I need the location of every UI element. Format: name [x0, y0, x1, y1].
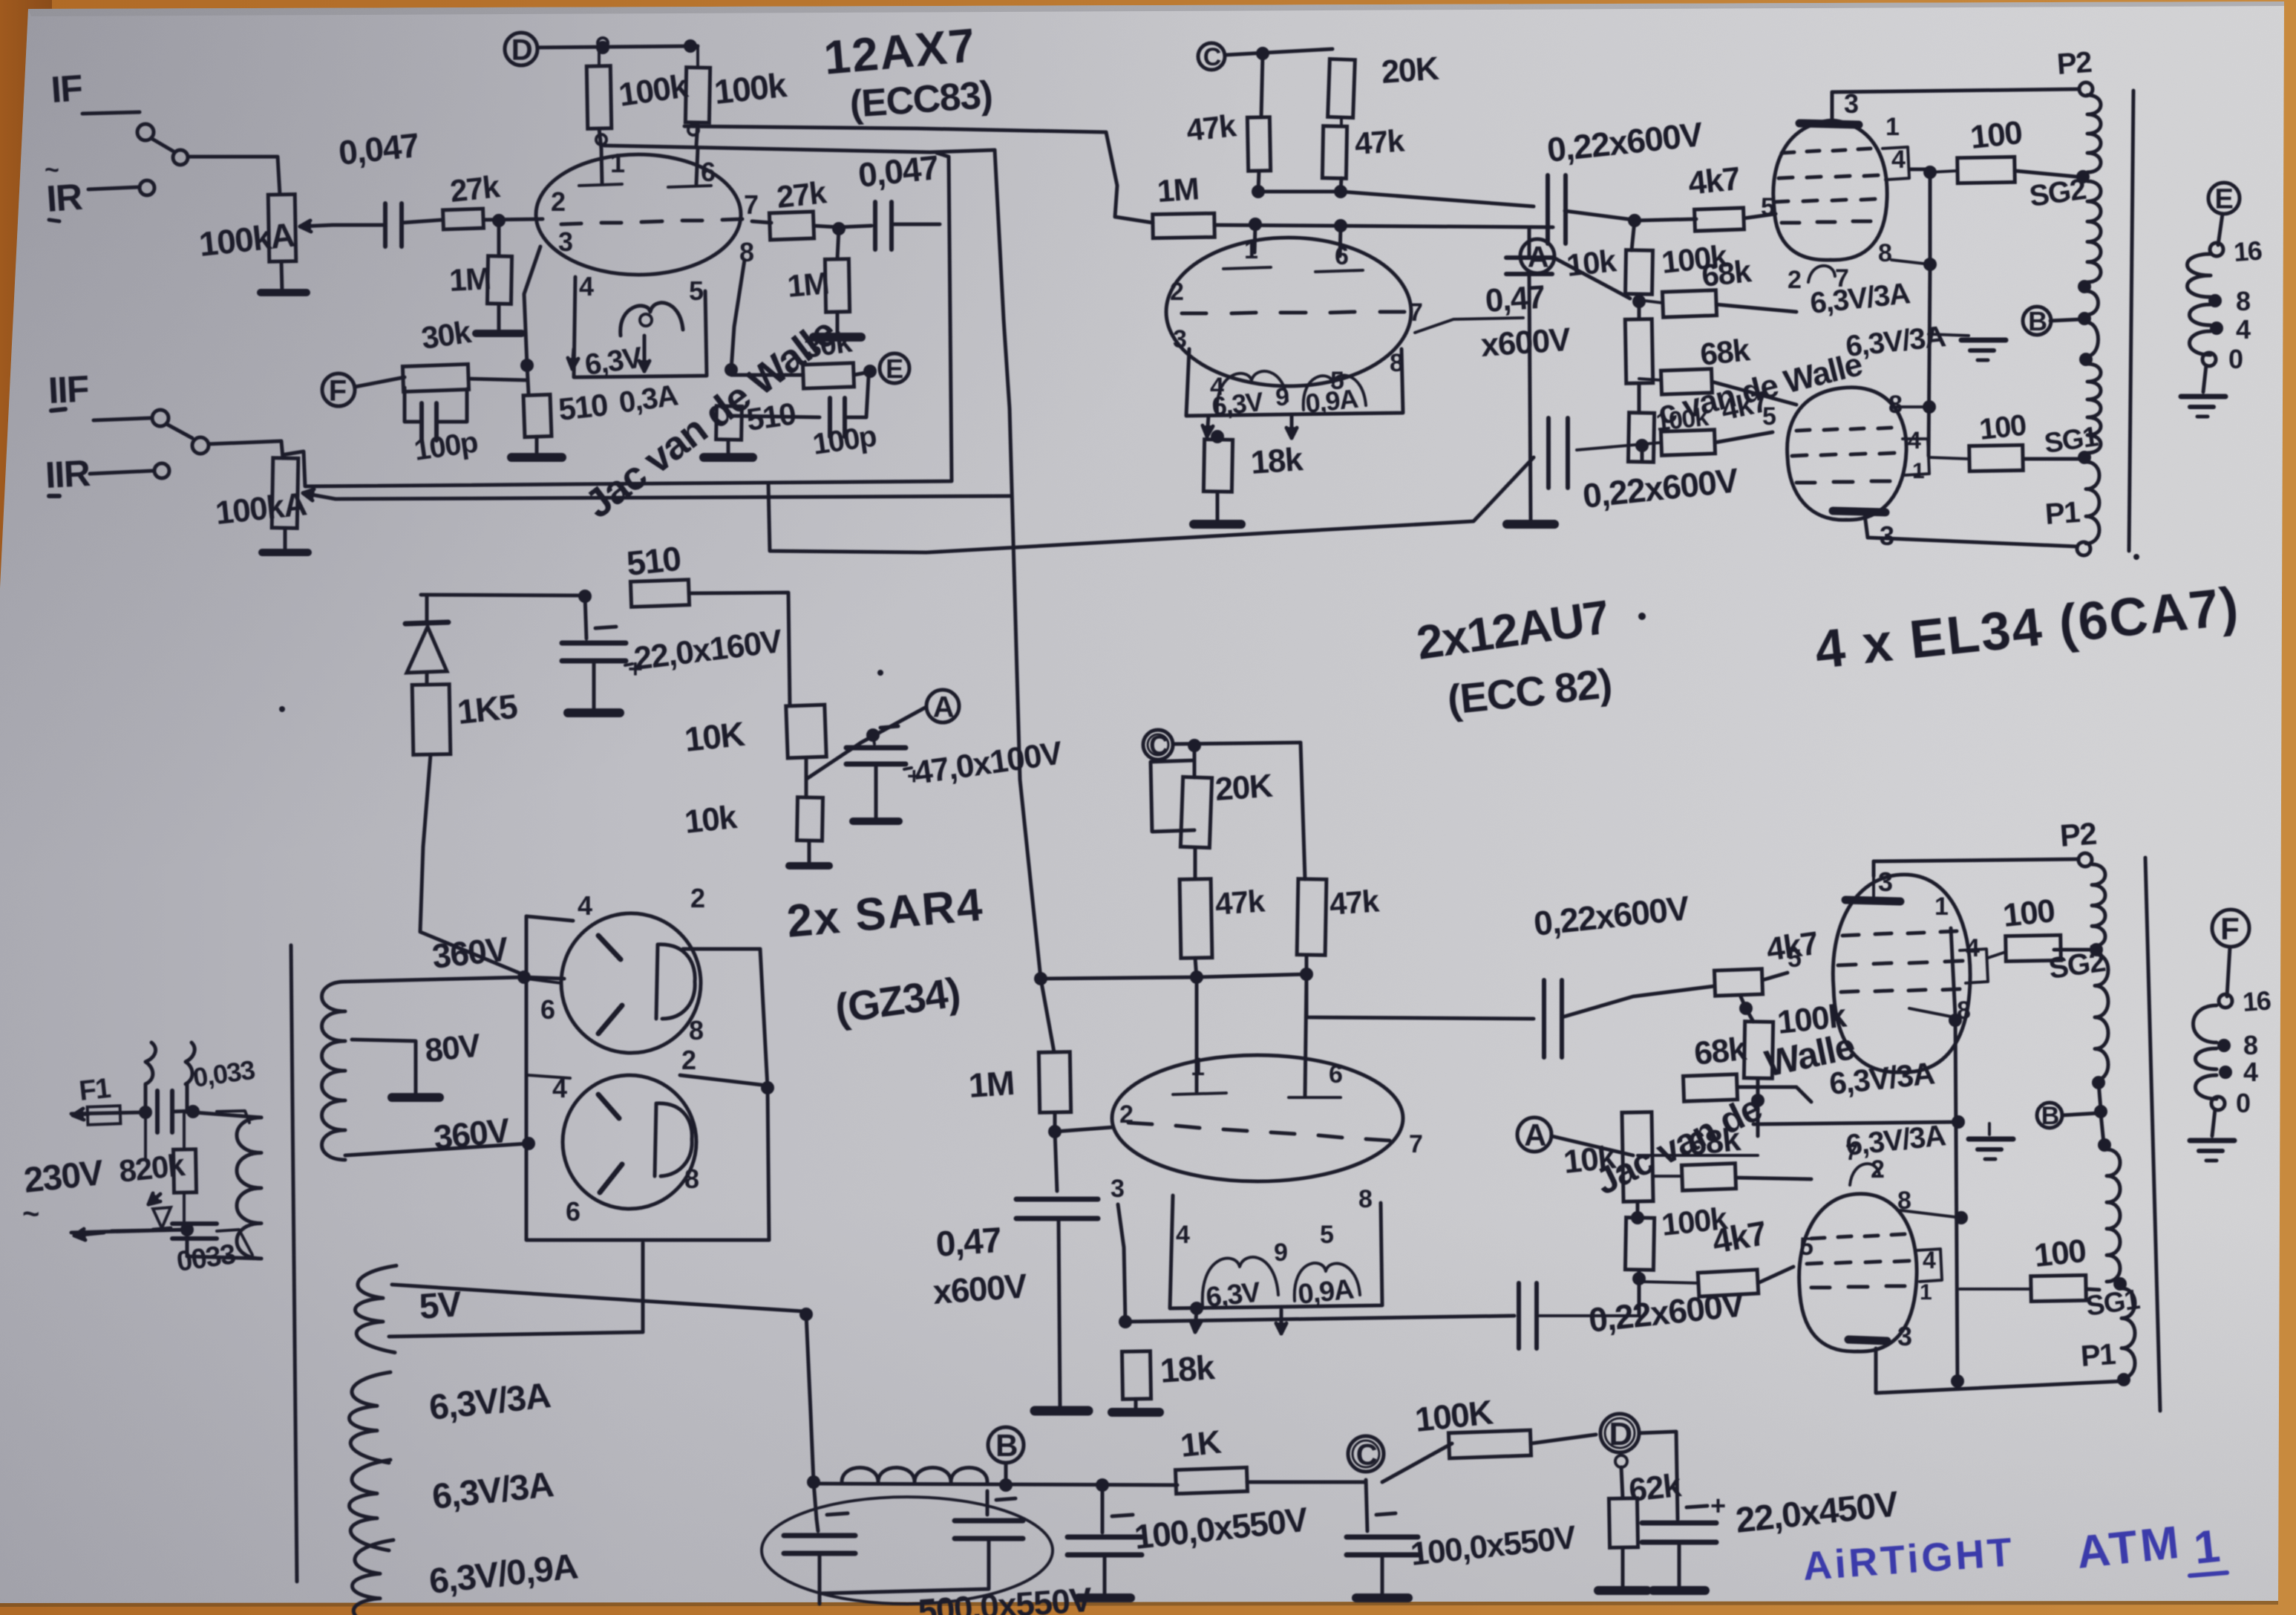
svg-text:0: 0 [2228, 344, 2243, 374]
svg-text:A: A [1524, 1118, 1546, 1152]
svg-text:x600V: x600V [932, 1266, 1029, 1311]
svg-text:7: 7 [1409, 1130, 1422, 1158]
svg-text:D: D [1609, 1416, 1631, 1452]
svg-text:27k: 27k [448, 169, 502, 209]
svg-text:1: 1 [1912, 459, 1924, 483]
svg-text:2: 2 [1170, 278, 1183, 306]
svg-text:0: 0 [2236, 1088, 2250, 1118]
svg-text:4: 4 [2243, 1057, 2258, 1087]
svg-text:E: E [2214, 184, 2232, 215]
svg-text:2: 2 [1119, 1100, 1133, 1129]
svg-text:F: F [329, 374, 346, 407]
svg-text:~: ~ [45, 156, 59, 184]
svg-text:9: 9 [1274, 1239, 1287, 1267]
svg-text:1M: 1M [1156, 171, 1200, 209]
svg-text:100: 100 [2001, 893, 2056, 934]
svg-text:16: 16 [2233, 235, 2263, 267]
svg-text:P2: P2 [2056, 46, 2093, 81]
svg-text:3: 3 [1878, 867, 1892, 897]
svg-text:B: B [2041, 1102, 2059, 1130]
svg-text:B: B [995, 1428, 1017, 1463]
svg-text:80V: 80V [423, 1027, 483, 1069]
svg-text:1K: 1K [1179, 1423, 1223, 1464]
svg-text:8: 8 [2236, 286, 2250, 316]
svg-text:8: 8 [1878, 239, 1891, 267]
svg-text:0,47: 0,47 [1484, 279, 1546, 319]
svg-text:360V: 360V [431, 929, 511, 976]
svg-text:IF: IF [50, 67, 83, 111]
svg-text:18k: 18k [1249, 441, 1304, 481]
svg-text:A: A [1528, 241, 1548, 273]
svg-text:8: 8 [1888, 391, 1902, 419]
svg-text:2: 2 [681, 1045, 696, 1075]
svg-text:1: 1 [1885, 113, 1899, 141]
svg-text:27k: 27k [775, 174, 828, 215]
svg-text:510: 510 [625, 539, 682, 583]
svg-text:8: 8 [689, 1015, 703, 1045]
svg-text:10K: 10K [683, 714, 747, 759]
svg-text:3: 3 [1880, 521, 1894, 551]
svg-text:3: 3 [558, 226, 572, 257]
svg-text:D: D [511, 33, 532, 66]
svg-text:100: 100 [1978, 409, 2027, 446]
svg-text:47k: 47k [1185, 108, 1238, 148]
svg-text:1: 1 [1920, 1280, 1932, 1305]
svg-text:100: 100 [1969, 114, 2024, 156]
svg-text:8: 8 [1358, 1185, 1372, 1213]
svg-text:20K: 20K [1214, 768, 1274, 808]
svg-text:4: 4 [578, 890, 592, 921]
svg-text:F: F [2220, 911, 2239, 946]
svg-text:6: 6 [566, 1196, 580, 1227]
svg-text:F1: F1 [78, 1073, 113, 1107]
svg-text:47k: 47k [1328, 883, 1381, 921]
svg-text:6,3V: 6,3V [1211, 386, 1265, 422]
svg-text:IIF: IIF [48, 368, 90, 411]
svg-text:1M: 1M [786, 265, 830, 304]
svg-text:10k: 10k [1565, 243, 1618, 283]
svg-text:20K: 20K [1380, 50, 1440, 91]
svg-text:1: 1 [1934, 893, 1948, 921]
svg-text:ATM: ATM [2074, 1516, 2184, 1578]
svg-text:10k: 10k [683, 799, 739, 841]
svg-text:+: + [1710, 1490, 1725, 1521]
svg-text:8: 8 [2243, 1030, 2257, 1060]
svg-text:18k: 18k [1159, 1348, 1217, 1390]
svg-text:5: 5 [1320, 1221, 1333, 1249]
svg-text:5: 5 [1762, 402, 1776, 431]
svg-text:47k: 47k [1353, 123, 1406, 161]
svg-text:68k: 68k [1700, 253, 1753, 293]
svg-text:x600V: x600V [1479, 322, 1572, 364]
svg-text:IIR: IIR [45, 452, 92, 496]
svg-text:3: 3 [1111, 1175, 1124, 1203]
svg-text:E: E [886, 353, 903, 384]
svg-text:1M: 1M [448, 261, 491, 298]
svg-text:6: 6 [1329, 1060, 1342, 1089]
svg-text:820k: 820k [117, 1147, 187, 1189]
svg-text:A: A [933, 691, 954, 723]
svg-text:C: C [1149, 730, 1168, 760]
svg-text:P1: P1 [2044, 496, 2081, 531]
svg-text:6: 6 [540, 994, 555, 1025]
svg-text:100: 100 [2032, 1233, 2087, 1274]
svg-text:8: 8 [684, 1164, 699, 1194]
svg-text:5: 5 [1761, 193, 1774, 221]
svg-text:6,3V: 6,3V [1205, 1276, 1263, 1314]
svg-text:4: 4 [1891, 146, 1906, 174]
svg-text:16: 16 [2242, 985, 2272, 1017]
svg-text:4k7: 4k7 [1687, 160, 1741, 202]
svg-text:C: C [1356, 1438, 1377, 1471]
svg-text:1M: 1M [967, 1063, 1015, 1105]
svg-text:47k: 47k [1214, 883, 1266, 921]
svg-text:230V: 230V [22, 1153, 106, 1201]
svg-text:0,47: 0,47 [935, 1221, 1002, 1265]
svg-text:30k: 30k [419, 314, 474, 356]
svg-text:2: 2 [1788, 266, 1801, 294]
svg-text:2: 2 [551, 186, 565, 217]
svg-text:8: 8 [739, 237, 753, 267]
svg-text:5: 5 [689, 275, 704, 306]
svg-text:4: 4 [2236, 314, 2251, 345]
svg-text:1K5: 1K5 [456, 687, 520, 731]
svg-text:5: 5 [1788, 944, 1801, 973]
svg-text:4: 4 [1176, 1221, 1190, 1249]
svg-text:1: 1 [610, 148, 625, 178]
svg-text:7: 7 [744, 189, 758, 220]
svg-text:P2: P2 [2058, 816, 2097, 853]
svg-text:1: 1 [1244, 236, 1257, 264]
svg-text:10k: 10k [1562, 1139, 1618, 1181]
svg-text:7: 7 [1409, 298, 1422, 327]
svg-text:68k: 68k [1692, 1031, 1749, 1072]
svg-text:6: 6 [1335, 242, 1348, 270]
svg-text:3: 3 [1897, 1321, 1911, 1351]
svg-text:6: 6 [701, 157, 715, 187]
svg-text:C: C [1203, 43, 1221, 71]
svg-text:4: 4 [579, 271, 594, 301]
svg-text:100k: 100k [713, 65, 789, 111]
svg-text:B: B [2028, 306, 2047, 336]
svg-text:68k: 68k [1687, 1121, 1743, 1163]
svg-text:~: ~ [22, 1198, 39, 1230]
svg-text:0,9A: 0,9A [1304, 383, 1360, 419]
svg-text:68k: 68k [1698, 332, 1752, 372]
svg-text:2: 2 [690, 883, 704, 913]
svg-text:P1: P1 [2080, 1338, 2117, 1373]
svg-text:510: 510 [557, 387, 609, 427]
svg-text:3: 3 [1173, 325, 1186, 353]
svg-text:5V: 5V [418, 1285, 463, 1327]
svg-text:0,9A: 0,9A [1297, 1273, 1355, 1311]
